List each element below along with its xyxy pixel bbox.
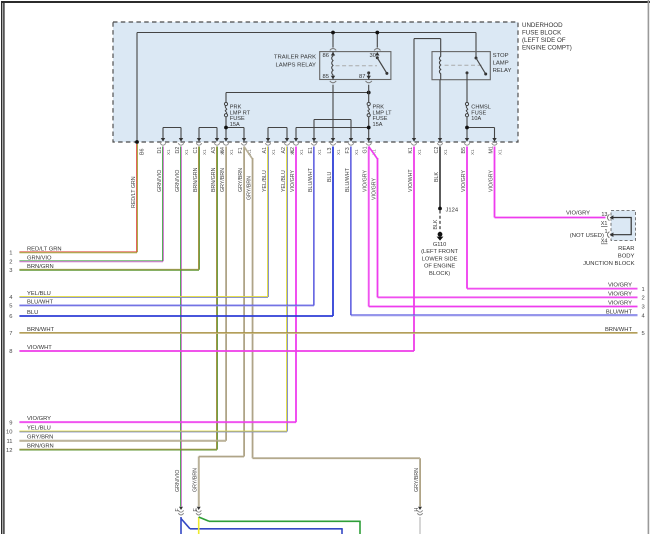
connector pin C2 terminal: [437, 138, 443, 145]
wire internal bracket K4-F1 left leg: [225, 128, 227, 140]
svg-text:86: 86: [323, 53, 329, 59]
svg-text:J124: J124: [446, 207, 459, 213]
wire internal bracket D1-D2: [163, 127, 181, 129]
svg-text:GRY/BRN: GRY/BRN: [238, 168, 244, 192]
wire YEL/BLU line 10 horizontal: [19, 430, 287, 433]
fuse label PRK LMP RT FUSE 15A: [230, 105, 251, 128]
wire GRY/BRN from F1 branch: [251, 158, 254, 458]
wire VIO/GRY from M1 to junction block: [493, 147, 496, 218]
wire GRY/BRN from F1 straight: [243, 147, 246, 457]
connector pin C1 terminal: [196, 138, 202, 145]
wire VIO/GRY from G1 branch: [376, 158, 379, 297]
wire BLU line 6 horizontal: [19, 315, 333, 318]
connector pin D2 terminal: [178, 138, 184, 145]
page border top: [2, 1, 650, 3]
wire internal bracket K4-F1 right leg: [243, 128, 245, 140]
connector E (in-line): [196, 507, 201, 515]
svg-text:3: 3: [642, 305, 645, 311]
wire GRY/BRN from F1 diagonal (diagonal): [244, 147, 253, 160]
svg-text:2: 2: [9, 260, 12, 266]
svg-text:BLK: BLK: [433, 219, 439, 229]
svg-text:BLOCK): BLOCK): [429, 271, 450, 277]
connector pin M1 terminal: [492, 138, 498, 145]
svg-text:GRY/BRN: GRY/BRN: [414, 468, 420, 492]
wire internal bracket 85 feeds E1/L3/F3: [314, 120, 351, 140]
junction block pin 1 terminal: [607, 232, 613, 238]
svg-text:BLU/WHT: BLU/WHT: [606, 309, 633, 315]
wire BLU/WHT right line 4 horizontal: [351, 314, 638, 317]
svg-text:VIO/GRY: VIO/GRY: [488, 170, 494, 192]
fuse label CHMSL FUSE 10A: [471, 105, 491, 123]
wire YEL/BLU from A1: [267, 147, 270, 298]
junction block internal jumper: [613, 218, 631, 235]
wire VIO/GRY right line 1 horizontal: [467, 287, 638, 290]
svg-text:TRAILER PARK: TRAILER PARK: [274, 55, 316, 61]
wire internal stop coil to C2 pin: [439, 80, 441, 139]
svg-text:H: H: [414, 508, 420, 512]
svg-text:12: 12: [6, 448, 12, 454]
svg-text:GRY/BRN: GRY/BRN: [220, 168, 226, 192]
svg-text:GRY/BRN: GRY/BRN: [27, 435, 53, 441]
svg-text:RED/LT GRN: RED/LT GRN: [27, 246, 62, 252]
wire BLK from C2 to splice J124: [439, 147, 442, 208]
wire internal bracket B5-M1 right leg: [494, 128, 496, 140]
svg-text:GRN/VIO: GRN/VIO: [175, 470, 181, 492]
wire GRN branch horizontal: [209, 520, 361, 522]
junction block pin 13 terminal: [607, 214, 613, 220]
svg-text:5: 5: [9, 304, 12, 310]
svg-text:BRN/WHT: BRN/WHT: [605, 327, 633, 333]
wire internal bracket A1-A2 right leg: [286, 128, 288, 140]
relay STOP LAMP RELAY box: [432, 52, 490, 80]
svg-text:X1: X1: [497, 149, 502, 155]
wire internal bracket K2-G1: [296, 127, 369, 129]
stop relay switch blade: [475, 57, 488, 76]
connector pin A2 terminal: [284, 138, 290, 145]
node B6 junction on dashed edge: [135, 140, 139, 144]
svg-text:VIO/WHT: VIO/WHT: [27, 345, 52, 351]
svg-text:RED/LT GRN: RED/LT GRN: [131, 176, 137, 208]
svg-text:JUNCTION BLOCK: JUNCTION BLOCK: [583, 261, 634, 267]
svg-text:8: 8: [9, 349, 12, 355]
wire BLU branch diagonal: [181, 519, 190, 529]
wire internal 85 stem down: [332, 85, 334, 139]
svg-text:13: 13: [601, 212, 607, 218]
svg-text:(LEFT FRONT: (LEFT FRONT: [421, 249, 458, 255]
connector pin K4 terminal: [223, 138, 229, 145]
svg-text:YEL/BLU: YEL/BLU: [281, 170, 287, 192]
wire GRY/BRN down to connector H: [419, 458, 422, 506]
fuse CHMSL FUSE 10A: [465, 102, 468, 116]
wire BRN/GRN from A3 (to line 12): [216, 147, 219, 450]
connector pin F1 terminal: [241, 138, 247, 145]
svg-text:X1: X1: [317, 149, 322, 155]
wire internal top bus: [137, 32, 476, 34]
svg-text:(NOT USED): (NOT USED): [570, 233, 604, 239]
svg-text:7: 7: [9, 331, 12, 337]
wire GRN branch down at right: [359, 521, 361, 534]
svg-text:YEL/BLU: YEL/BLU: [262, 170, 268, 192]
svg-text:B6: B6: [140, 148, 146, 155]
svg-text:LOWER SIDE: LOWER SIDE: [422, 256, 458, 262]
svg-text:X1: X1: [166, 149, 171, 155]
connector H (in-line): [417, 507, 422, 515]
wire internal 87 stem down: [368, 85, 370, 103]
relay coil (86-85): [332, 52, 333, 80]
wire YEL below connector E: [198, 517, 200, 534]
svg-text:BLK: BLK: [434, 172, 440, 182]
terminal pin 87 (arrow + arc): [366, 76, 372, 83]
wire VIO/GRY to junction block pin 13: [495, 216, 606, 219]
node bus junction at 30 drop: [375, 31, 379, 35]
connector pin K2 terminal: [293, 138, 299, 145]
wire GRN/VIO line 2 horizontal: [19, 260, 163, 263]
relay switch blade 30-87: [376, 56, 389, 75]
svg-text:BLU/WHT: BLU/WHT: [308, 167, 314, 192]
wire internal bracket K2-G1 right leg: [368, 128, 370, 140]
stop relay internal dashed link: [445, 64, 483, 66]
svg-text:OF ENGINE: OF ENGINE: [424, 264, 455, 270]
svg-text:STOP: STOP: [493, 53, 509, 59]
svg-text:3: 3: [9, 268, 12, 274]
svg-text:REAR: REAR: [618, 246, 634, 252]
svg-text:85: 85: [323, 74, 329, 80]
underhood fuse block (dashed box, blue fill): [113, 22, 518, 142]
wire internal bracket B5-M1: [467, 127, 495, 129]
svg-text:LAMPS RELAY: LAMPS RELAY: [276, 63, 317, 69]
svg-text:1: 1: [642, 287, 645, 293]
wire VIO/GRY line 9 horizontal: [19, 421, 296, 424]
svg-text:1: 1: [9, 251, 12, 257]
node bus junction at 86 drop: [331, 31, 335, 35]
svg-text:30: 30: [370, 53, 376, 59]
wire internal stop coil feed to K1: [414, 39, 441, 139]
wire VIO/GRY from G1 diagonal (diagonal): [369, 147, 378, 160]
wire internal bracket C1-A3 left leg: [198, 128, 200, 140]
wire internal bracket C1-A3 right leg: [216, 128, 218, 140]
wire VIO/WHT from K1 (to line 8): [413, 147, 416, 352]
wire BLU/WHT line 5 horizontal: [19, 304, 314, 307]
stop relay coil: [439, 52, 440, 80]
svg-text:15A: 15A: [373, 122, 383, 128]
svg-text:BLU: BLU: [27, 310, 38, 316]
connector F (in-line): [178, 507, 183, 515]
page border left: [1, 1, 5, 534]
fuse PRK LMP RT FUSE 15A: [224, 102, 227, 116]
svg-text:X1: X1: [229, 149, 234, 155]
svg-text:(LEFT SIDE OF: (LEFT SIDE OF: [522, 37, 566, 44]
svg-text:BODY: BODY: [618, 254, 635, 260]
connector pin L3 terminal: [330, 138, 336, 145]
wire BRN/GRN line 12 horizontal: [19, 448, 217, 451]
wire GRN branch diagonal: [199, 517, 209, 521]
pin label X4: [601, 238, 608, 244]
svg-text:ENGINE COMPT): ENGINE COMPT): [522, 45, 572, 52]
node junction LT fuse / bracket: [367, 126, 371, 130]
svg-text:X1: X1: [417, 149, 422, 155]
fuse PRK LMP LT FUSE 15A: [367, 102, 370, 116]
svg-text:VIO/GRY: VIO/GRY: [566, 210, 590, 216]
svg-text:VIO/GRY: VIO/GRY: [608, 301, 632, 307]
relay internal dashed link: [336, 65, 378, 67]
wire GRY/BRN from K4 (to line 11): [225, 147, 228, 441]
svg-text:E: E: [193, 508, 199, 512]
connector pin G1 terminal: [366, 138, 372, 145]
svg-text:10: 10: [6, 430, 12, 436]
svg-text:X1: X1: [299, 149, 304, 155]
wire GRY/BRN down to connector E: [197, 457, 200, 507]
wire GRN/VIO from D2 (to connector F): [180, 147, 183, 507]
node junction 87 drop / fuse feed: [367, 91, 371, 95]
connector pin F3 terminal: [348, 138, 354, 145]
connector pin E1 terminal: [311, 138, 317, 145]
svg-text:BLU/WHT: BLU/WHT: [345, 167, 351, 192]
svg-text:VIO/WHT: VIO/WHT: [408, 169, 414, 192]
wire VIO/GRY right line 2 horizontal: [378, 296, 638, 299]
svg-text:LAMP: LAMP: [493, 61, 509, 67]
wire WHT below connector H: [419, 517, 421, 534]
node junction RT fuse / bracket: [224, 126, 228, 130]
svg-text:BRN/GRN: BRN/GRN: [27, 264, 54, 270]
svg-text:VIO/GRY: VIO/GRY: [608, 291, 632, 297]
svg-text:1: 1: [604, 229, 607, 235]
ground G110 symbol: [437, 232, 444, 241]
wire internal drop to relay pin 30: [376, 33, 378, 48]
terminal pin 30 (arc + arrow): [374, 49, 380, 56]
connector pin B5 terminal: [464, 138, 470, 145]
junction block caption: [583, 246, 634, 267]
wire internal bracket A1-A2 left leg: [267, 128, 269, 140]
svg-text:10A: 10A: [471, 116, 481, 122]
svg-text:GRN/VIO: GRN/VIO: [157, 170, 163, 192]
svg-text:87: 87: [359, 74, 365, 80]
svg-text:UNDERHOOD: UNDERHOOD: [522, 22, 563, 29]
wire GRY/BRN jog to connector H: [253, 457, 421, 460]
svg-text:VIO/GRY: VIO/GRY: [608, 283, 632, 289]
terminal pin 86 (arc + arrow): [330, 49, 336, 56]
svg-text:BRN/GRN: BRN/GRN: [27, 444, 54, 450]
wire internal bracket K4-F1: [226, 127, 244, 129]
wire BLU branch horizontal: [190, 528, 343, 530]
wire internal drop to stop relay switch: [475, 33, 477, 59]
wire BRN/WHT line 7 horizontal: [19, 332, 637, 335]
svg-text:VIO/GRY: VIO/GRY: [290, 170, 296, 192]
wire BLU/WHT from E1: [313, 147, 316, 306]
svg-text:9: 9: [9, 420, 12, 426]
wire internal B6 stem: [136, 33, 138, 142]
connector pin D1 terminal: [160, 138, 166, 145]
wire BRN/GRN from C1: [198, 147, 201, 270]
svg-text:X1: X1: [443, 149, 448, 155]
wire BLU branch down at right: [341, 529, 343, 534]
wire BLK dashed to ground: [439, 211, 441, 232]
svg-text:2: 2: [642, 296, 645, 302]
wire VIO/GRY right line 3 horizontal: [369, 305, 638, 308]
wire internal drop to relay pin 86: [332, 33, 334, 48]
svg-text:11: 11: [6, 439, 12, 445]
svg-text:X1: X1: [184, 149, 189, 155]
svg-text:F: F: [175, 508, 181, 511]
svg-text:BRN/GRN: BRN/GRN: [193, 167, 199, 192]
wire internal RT fuse stem bottom: [225, 117, 227, 128]
connector pin K1 terminal: [411, 138, 417, 145]
svg-text:YEL/BLU: YEL/BLU: [27, 426, 51, 432]
svg-text:GRY/BRN: GRY/BRN: [246, 176, 252, 200]
pin label X1: [601, 221, 608, 227]
wire internal CHMSL fuse stem bottom: [466, 117, 468, 128]
relay pin 87 stub: [367, 71, 370, 79]
svg-text:X1: X1: [470, 149, 475, 155]
splice J124: [438, 207, 442, 211]
wire VIO/GRY from B5: [466, 147, 469, 289]
relay label STOP LAMP RELAY: [493, 53, 512, 74]
connector pin A3 terminal: [214, 138, 220, 145]
wire VIO/GRY from G1 straight: [367, 147, 370, 307]
svg-text:X1: X1: [202, 149, 207, 155]
relay label TRAILER PARK LAMPS RELAY: [274, 55, 316, 69]
wire BRN/GRN line 3 horizontal: [19, 268, 199, 271]
page border right: [648, 0, 650, 534]
rear body junction block box: [611, 211, 636, 241]
wire internal bracket C1-A3: [199, 127, 217, 129]
svg-text:BRN/WHT: BRN/WHT: [27, 327, 55, 333]
wire internal LT fuse stem bottom: [368, 117, 370, 128]
wire internal RT fuse stem top: [225, 93, 227, 103]
connector pin A1 terminal: [265, 138, 271, 145]
wire YEL/BLU line 4 horizontal: [19, 296, 268, 299]
node junction CHMSL fuse / bracket: [465, 126, 469, 130]
svg-text:VIO/GRY: VIO/GRY: [27, 416, 51, 422]
wire internal fuse feed (87 to fuses): [226, 92, 369, 94]
wire GRY/BRN line 11 horizontal: [19, 439, 226, 442]
svg-text:VIO/GRY: VIO/GRY: [363, 170, 369, 192]
svg-text:VIO/GRY: VIO/GRY: [371, 178, 377, 200]
wire GRY/BRN jog to connector E: [199, 455, 244, 458]
svg-text:GRY/BRN: GRY/BRN: [193, 468, 199, 492]
wire RED/LT GRN from B6: [136, 144, 139, 252]
svg-text:BLU/WHT: BLU/WHT: [27, 300, 54, 306]
svg-text:X1: X1: [271, 149, 276, 155]
svg-text:BLU: BLU: [327, 172, 333, 182]
wire internal bracket K2-G1 left leg: [295, 128, 297, 140]
wire BLU below connector F: [180, 517, 182, 534]
wire internal bracket D1-D2 right leg: [180, 128, 182, 140]
svg-text:G110: G110: [433, 242, 447, 248]
wire BLU from L3: [332, 147, 335, 317]
wire YEL/BLU from A2 (to line 10): [286, 147, 289, 432]
wire internal bracket A1-A2: [268, 127, 287, 129]
wire RED/LT GRN line 1 horizontal: [19, 251, 137, 254]
svg-text:YEL/BLU: YEL/BLU: [27, 291, 51, 297]
svg-text:5: 5: [642, 331, 645, 337]
wire GRN/VIO from D1: [162, 147, 165, 262]
stop relay output stub: [466, 71, 469, 103]
wire internal bracket B5-M1 left leg: [466, 128, 468, 140]
wire VIO/GRY from K2 (to line 9): [295, 147, 298, 423]
svg-text:BRN/GRN: BRN/GRN: [211, 167, 217, 192]
wire BLU/WHT from F3: [350, 147, 353, 316]
wire VIO/WHT line 8 horizontal: [19, 350, 414, 353]
svg-text:VIO/GRY: VIO/GRY: [461, 170, 467, 192]
svg-text:6: 6: [9, 314, 12, 320]
svg-text:FUSE BLOCK: FUSE BLOCK: [522, 30, 562, 37]
wire internal bracket D1-D2 left leg: [162, 128, 164, 140]
svg-text:X1: X1: [354, 149, 359, 155]
ground label G110: [421, 242, 458, 277]
svg-text:GRN/VIO: GRN/VIO: [27, 255, 52, 261]
svg-text:X1: X1: [336, 149, 341, 155]
relay TRAILER PARK LAMPS RELAY box: [320, 52, 391, 80]
svg-text:RELAY: RELAY: [493, 68, 512, 74]
fuse block title text: [522, 22, 572, 52]
svg-text:GRN/VIO: GRN/VIO: [175, 170, 181, 192]
terminal pin 85 (arrow + arc): [330, 76, 336, 83]
fuse label PRK LMP LT FUSE 15A: [373, 105, 393, 128]
